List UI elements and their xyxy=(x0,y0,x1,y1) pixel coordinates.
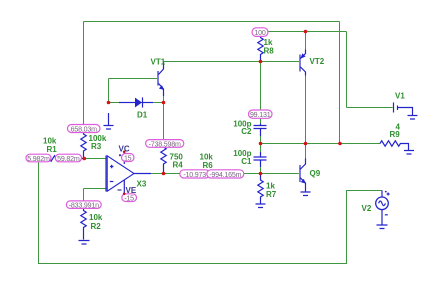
resistor R7 xyxy=(258,174,277,204)
svg-text:99.131: 99.131 xyxy=(250,111,271,119)
svg-text:658.03m: 658.03m xyxy=(71,125,97,133)
wire opamp output row xyxy=(150,173,261,175)
svg-text:R2: R2 xyxy=(91,222,102,231)
svg-text:Q9: Q9 xyxy=(310,169,321,178)
junction outer loop rail xyxy=(338,142,342,146)
svg-text:R6: R6 xyxy=(203,161,214,170)
svg-text:-738.598m: -738.598m xyxy=(149,140,181,148)
wire bottom loop V2 to R1 xyxy=(39,159,383,264)
ground right of V1 xyxy=(408,116,418,120)
capacitor C1 xyxy=(233,149,266,174)
wire V1 branch horizontal xyxy=(347,107,393,109)
battery V1 xyxy=(394,92,413,116)
junction C1 bottom R7 xyxy=(259,172,263,176)
ground below R7 xyxy=(256,204,266,208)
svg-text:D1: D1 xyxy=(137,111,148,120)
resistor R1 xyxy=(39,137,85,162)
wire R8 top row xyxy=(261,31,347,33)
svg-text:10k: 10k xyxy=(89,213,103,222)
resistor R3 xyxy=(81,131,107,159)
svg-text:R7: R7 xyxy=(266,190,277,199)
ground below D1 left junction xyxy=(104,113,114,129)
junction R8 bottom xyxy=(259,60,263,64)
wire VT1 base down xyxy=(108,79,110,103)
source V2 xyxy=(362,191,390,225)
wire C2 bottom stub xyxy=(260,135,262,144)
ground below V2 xyxy=(377,225,388,229)
node VC (15) xyxy=(122,154,135,163)
svg-text:X3: X3 xyxy=(137,180,147,189)
resistor R6 labels xyxy=(200,153,214,171)
node (-10.973) xyxy=(180,170,210,179)
resistor R2 xyxy=(81,208,103,240)
svg-text:-15: -15 xyxy=(124,194,134,202)
junction C1 top C2 bottom xyxy=(259,142,263,146)
node (59.82m) xyxy=(55,154,81,163)
svg-text:VT2: VT2 xyxy=(310,57,325,66)
node (5.982m) xyxy=(26,154,51,163)
ground below R2 xyxy=(79,241,90,245)
junction D1 right xyxy=(162,101,166,105)
node (658.03m) xyxy=(68,125,101,134)
wire VT1 base xyxy=(109,78,158,80)
transistor VT1 xyxy=(151,58,166,103)
wire Q9 collector vertical xyxy=(305,144,307,159)
node (99.131) xyxy=(249,110,273,119)
resistor R8 xyxy=(258,34,274,62)
op-amp X3 VC pin dot xyxy=(123,151,126,154)
svg-text:59.82m: 59.82m xyxy=(57,155,80,163)
op-amp X3 xyxy=(106,145,151,195)
wire outer right vertical xyxy=(339,22,341,144)
wire C2 top vertical xyxy=(260,62,262,124)
svg-text:R4: R4 xyxy=(173,161,184,170)
svg-text:R8: R8 xyxy=(264,47,275,56)
svg-text:-10.973: -10.973 xyxy=(183,171,206,179)
resistor R4 xyxy=(161,147,184,174)
svg-text:R1: R1 xyxy=(47,145,58,154)
node (-833.991n) xyxy=(66,201,101,210)
ground right of R9 xyxy=(404,151,414,155)
svg-text:R9: R9 xyxy=(390,130,401,139)
wire outer left vertical xyxy=(83,22,85,132)
svg-text:R3: R3 xyxy=(91,142,102,151)
diode D1 xyxy=(119,97,153,119)
capacitor C2 xyxy=(233,119,266,136)
node (-994.165m) xyxy=(207,170,244,179)
transistor Q9 xyxy=(300,159,321,189)
svg-text:15: 15 xyxy=(124,154,132,162)
wire VT1 collector row xyxy=(164,61,300,63)
svg-text:VT1: VT1 xyxy=(151,58,166,67)
wire D1 row xyxy=(109,102,164,104)
junction VT2 collector rail xyxy=(304,142,308,146)
svg-text:-994.165m: -994.165m xyxy=(209,171,241,179)
junction at R1/R3/opamp xyxy=(83,157,87,161)
svg-text:V1: V1 xyxy=(395,92,405,101)
wire opamp +in xyxy=(84,158,106,160)
wire VT2 collector vertical xyxy=(305,76,307,144)
svg-text:C1: C1 xyxy=(241,157,252,166)
wire VT2 emitter vertical xyxy=(305,32,307,50)
svg-text:-833.991n: -833.991n xyxy=(69,202,99,210)
node (-738.598m) xyxy=(146,140,184,149)
svg-text:V2: V2 xyxy=(362,204,372,213)
ground below Q9 xyxy=(301,189,311,196)
node (100) xyxy=(252,28,268,37)
wire opamp -in xyxy=(84,189,107,202)
transistor VT2 xyxy=(300,50,325,76)
node VE (-15) xyxy=(122,194,137,203)
svg-text:C2: C2 xyxy=(241,127,252,136)
junction opamp output xyxy=(162,172,166,176)
wire Q9 base xyxy=(261,173,299,175)
svg-text:5.982m: 5.982m xyxy=(27,155,50,163)
junction VT2 emitter top xyxy=(304,30,308,34)
wire rail y=143.5 xyxy=(261,143,381,145)
junction D1 left xyxy=(107,101,111,105)
op-amp X3 VE pin dot xyxy=(123,193,126,196)
svg-text:100: 100 xyxy=(254,29,265,37)
wire C1 top stub xyxy=(260,144,262,153)
wire D1 to R4 xyxy=(163,103,165,140)
resistor R9 xyxy=(380,123,409,151)
wire outer top rail xyxy=(84,21,340,23)
wire V1 branch vertical xyxy=(346,32,348,108)
